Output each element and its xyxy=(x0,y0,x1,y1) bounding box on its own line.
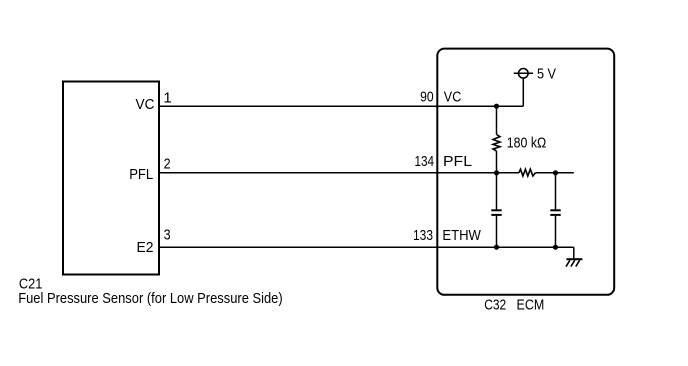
resistor R2 horizontal xyxy=(519,169,536,176)
ground symbol xyxy=(566,259,582,266)
ECM box C32 xyxy=(437,49,614,295)
svg-text:ETHW: ETHW xyxy=(442,227,481,244)
svg-text:PFL: PFL xyxy=(129,166,153,183)
svg-text:3: 3 xyxy=(164,227,171,244)
wire capacitor C_a to ETHW row xyxy=(496,216,498,247)
svg-text:PFL: PFL xyxy=(443,153,472,170)
wire PFL row right xyxy=(535,172,573,174)
svg-text:90: 90 xyxy=(420,89,434,106)
capacitor C_a xyxy=(491,210,501,215)
svg-text:Fuel Pressure Sensor (for Low: Fuel Pressure Sensor (for Low Pressure S… xyxy=(18,290,283,307)
wire VC row xyxy=(159,105,523,107)
resistor 180 kOhm xyxy=(493,135,500,152)
junction dot ETHW node B xyxy=(553,245,558,250)
capacitor C_b xyxy=(550,210,560,215)
connector C21 sensor box xyxy=(63,82,159,275)
junction dot VC node xyxy=(494,104,499,109)
wire PFL to capacitor C_a xyxy=(496,173,498,210)
svg-text:5 V: 5 V xyxy=(537,65,556,82)
wire PFL to capacitor C_b xyxy=(555,173,557,210)
svg-text:VC: VC xyxy=(136,96,155,113)
junction dot PFL node B xyxy=(553,170,558,175)
svg-text:C32: C32 xyxy=(484,297,506,314)
svg-text:VC: VC xyxy=(444,89,462,106)
wire capacitor C_b to ETHW row xyxy=(555,216,557,247)
power supply 5V symbol xyxy=(514,69,533,79)
wire ETHW to ground xyxy=(573,247,575,259)
svg-text:180 kΩ: 180 kΩ xyxy=(507,135,547,152)
svg-text:133: 133 xyxy=(413,227,433,244)
wire ETHW row xyxy=(159,246,574,248)
junction dot PFL node A xyxy=(494,170,499,175)
junction dot ETHW node A xyxy=(494,245,499,250)
wire 5V drop xyxy=(522,78,524,106)
svg-text:E2: E2 xyxy=(137,239,154,256)
svg-text:ECM: ECM xyxy=(517,297,545,314)
svg-text:134: 134 xyxy=(415,153,435,170)
wire VC to resistor xyxy=(496,106,498,134)
svg-text:2: 2 xyxy=(164,156,171,173)
svg-text:1: 1 xyxy=(163,90,171,107)
wire resistor to PFL row xyxy=(496,151,498,173)
wire PFL row left xyxy=(159,172,519,174)
